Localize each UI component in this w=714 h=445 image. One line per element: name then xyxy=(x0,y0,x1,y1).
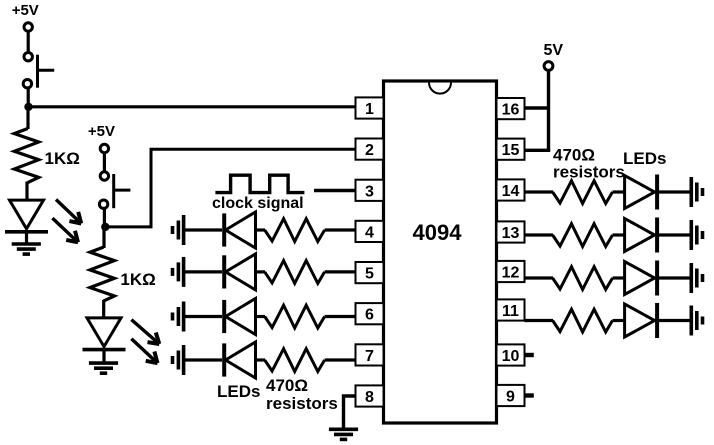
ground (pin 4 row) xyxy=(173,215,184,245)
svg-text:5V: 5V xyxy=(544,42,564,59)
resistor 470 ohm (pin 12 row) xyxy=(553,267,613,290)
ground xyxy=(12,244,41,254)
wire xyxy=(613,190,626,193)
pushbutton switch (input column 1) xyxy=(23,53,54,88)
wire xyxy=(102,227,105,248)
resistor 470 ohm (pin 4 row) xyxy=(265,219,325,242)
wire xyxy=(325,315,356,318)
svg-text:4: 4 xyxy=(365,224,374,241)
resistor 470 ohm (pin 7 row) xyxy=(265,349,325,372)
LED D1 xyxy=(5,200,48,232)
light arrow xyxy=(131,339,157,363)
pin 13 box xyxy=(497,221,525,242)
svg-text:4094: 4094 xyxy=(413,220,463,245)
LED (pin 5 row) xyxy=(224,254,255,290)
svg-text:15: 15 xyxy=(502,142,520,159)
wire xyxy=(613,276,626,279)
wire xyxy=(256,315,266,318)
wire xyxy=(103,208,106,224)
wire xyxy=(103,153,106,173)
svg-text:11: 11 xyxy=(502,303,519,320)
svg-text:9: 9 xyxy=(506,389,515,406)
wire xyxy=(25,182,28,202)
clock signal waveform xyxy=(215,175,304,192)
wire xyxy=(184,315,222,318)
svg-text:LEDs: LEDs xyxy=(623,149,666,168)
svg-text:13: 13 xyxy=(502,225,520,242)
wire xyxy=(325,228,356,231)
pin 4 box xyxy=(356,221,384,242)
light arrow xyxy=(56,200,81,224)
label LEDs (right group) xyxy=(623,149,666,168)
ground (pin 5 row) xyxy=(173,257,184,287)
+5V terminal (input column 1) xyxy=(24,23,32,31)
wire xyxy=(26,107,29,129)
wire xyxy=(325,358,356,361)
pin 2 box xyxy=(356,139,384,160)
5V terminal xyxy=(544,62,553,71)
wire stub pin 10 xyxy=(525,353,534,357)
label LEDs (left group) xyxy=(217,382,260,401)
pin 1 box xyxy=(356,97,384,118)
wire xyxy=(659,319,691,322)
wire pin 16 to 5V xyxy=(525,106,551,109)
label 470 ohm (right group) xyxy=(553,146,595,165)
svg-text:+5V: +5V xyxy=(88,123,115,140)
LED (pin 13 row) xyxy=(625,218,658,253)
label resistors (left group) xyxy=(266,394,338,413)
wire 5V bus xyxy=(547,70,550,150)
wire xyxy=(27,88,30,103)
svg-text:1KΩ: 1KΩ xyxy=(45,149,80,168)
svg-text:16: 16 xyxy=(502,102,520,119)
+5V terminal (input column 2) xyxy=(100,144,108,152)
label 470 ohm (left group) xyxy=(266,376,308,395)
wire xyxy=(27,31,30,53)
node: junction data line xyxy=(101,223,109,231)
wire xyxy=(256,270,266,273)
label resistors (right group) xyxy=(553,163,625,182)
pin 6 box xyxy=(356,303,384,324)
label 1K ohm R1 xyxy=(45,149,80,168)
pin 11 box xyxy=(497,299,525,320)
label 5V supply xyxy=(544,42,564,59)
ground (pin 13 row) xyxy=(691,220,702,250)
LED D2 xyxy=(83,318,126,350)
wire xyxy=(25,233,28,244)
wire xyxy=(184,358,222,361)
wire to pin 1 xyxy=(29,105,356,108)
pin 16 box xyxy=(497,98,525,119)
svg-text:1KΩ: 1KΩ xyxy=(120,270,155,289)
svg-text:2: 2 xyxy=(365,142,374,159)
svg-text:3: 3 xyxy=(365,183,374,200)
wire xyxy=(659,276,691,279)
+5V supply label (input column 1) xyxy=(12,2,39,19)
ground xyxy=(89,363,118,373)
pin 7 box xyxy=(356,344,384,365)
svg-text:5: 5 xyxy=(365,266,374,283)
svg-text:7: 7 xyxy=(365,348,374,365)
svg-text:+5V: +5V xyxy=(12,2,39,19)
wire xyxy=(613,233,626,236)
wire xyxy=(525,190,554,193)
wire xyxy=(344,396,356,428)
pin 8 box xyxy=(356,385,384,406)
resistor 470 ohm (pin 13 row) xyxy=(553,224,613,247)
op IC U1 4094 body xyxy=(384,81,497,423)
pin 5 box xyxy=(356,262,384,283)
wire xyxy=(613,319,626,322)
svg-text:6: 6 xyxy=(365,307,374,324)
wire xyxy=(184,228,222,231)
pin 10 box xyxy=(497,344,525,365)
svg-text:resistors: resistors xyxy=(553,163,625,182)
pin 3 box xyxy=(356,180,384,201)
wire xyxy=(525,319,554,322)
pin 12 box xyxy=(497,261,525,282)
light arrow xyxy=(52,218,78,242)
node: junction strobe line xyxy=(24,103,32,111)
wire stub pin 9 xyxy=(525,393,534,397)
wire xyxy=(184,270,222,273)
svg-text:10: 10 xyxy=(502,348,520,365)
svg-text:resistors: resistors xyxy=(266,394,338,413)
label clock signal xyxy=(212,195,304,212)
svg-text:1: 1 xyxy=(365,101,374,118)
label 1K ohm R2 xyxy=(120,270,155,289)
LED (pin 6 row) xyxy=(224,299,255,335)
wire pin 15 to 5V xyxy=(525,149,551,152)
wire to pin 2 xyxy=(105,149,355,227)
ground (pin 11 row) xyxy=(691,306,702,336)
light arrow xyxy=(131,320,159,344)
pin 9 box xyxy=(497,385,525,406)
ground (pin 7 row) xyxy=(173,345,184,375)
svg-text:LEDs: LEDs xyxy=(217,382,260,401)
wire xyxy=(525,233,554,236)
wire xyxy=(256,358,266,361)
resistor R1 1K xyxy=(14,129,38,183)
LED (pin 12 row) xyxy=(625,261,658,296)
pin 15 box xyxy=(497,139,525,160)
ground (pin 6 row) xyxy=(173,302,184,332)
wire xyxy=(102,351,105,363)
svg-text:470Ω: 470Ω xyxy=(266,376,308,395)
wire xyxy=(256,228,266,231)
svg-text:14: 14 xyxy=(502,183,520,200)
pin 14 box xyxy=(497,179,525,200)
ground (pin 12 row) xyxy=(691,263,702,293)
LED (pin 7 row) xyxy=(224,342,255,378)
resistor 470 ohm (pin 14 row) xyxy=(553,181,613,204)
svg-text:clock signal: clock signal xyxy=(212,195,304,212)
ground (pin 14 row) xyxy=(691,177,702,207)
wire xyxy=(659,190,691,193)
LED (pin 14 row) xyxy=(625,175,658,210)
resistor R2 1K xyxy=(90,247,114,301)
svg-text:8: 8 xyxy=(365,389,374,406)
svg-text:12: 12 xyxy=(502,265,520,282)
resistor 470 ohm (pin 6 row) xyxy=(265,305,325,328)
wire xyxy=(659,233,691,236)
wire xyxy=(102,300,105,319)
+5V supply label (input column 2) xyxy=(88,123,115,140)
LED (pin 11 row) xyxy=(625,303,658,338)
LED (pin 4 row) xyxy=(224,212,255,248)
ground (pin 8) xyxy=(329,429,358,439)
wire xyxy=(525,276,554,279)
resistor 470 ohm (pin 11 row) xyxy=(553,309,613,332)
resistor 470 ohm (pin 5 row) xyxy=(265,261,325,284)
wire xyxy=(325,270,356,273)
wire to pin 3 xyxy=(314,189,356,192)
pushbutton switch (input column 2) xyxy=(99,172,130,209)
